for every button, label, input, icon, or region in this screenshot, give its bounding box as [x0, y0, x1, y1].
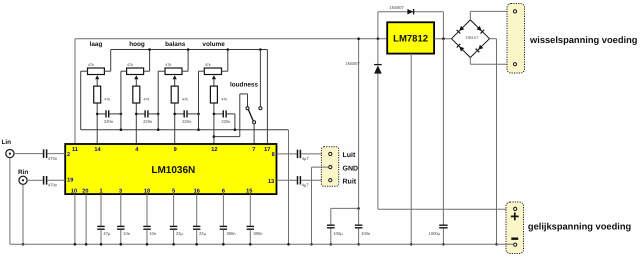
junction C3 to next channel drop: [197, 113, 200, 116]
wire pin 20 to ground: [85, 194, 87, 244]
wire cap to IC Rin: [47, 179, 65, 181]
junction cap ground: [120, 243, 123, 246]
svg-text:47k: 47k: [165, 63, 171, 67]
junction Vref hoog: [148, 48, 151, 51]
svg-text:wisselspanning voeding: wisselspanning voeding: [529, 35, 638, 45]
potentiometer P2 hoog 47k: [127, 63, 144, 79]
pin 16 label: [194, 188, 200, 194]
svg-text:47k: 47k: [205, 63, 211, 67]
capacitor 390n pin decoupling: [220, 194, 237, 244]
svg-text:22µ: 22µ: [199, 231, 207, 236]
junction cap ground: [249, 243, 252, 246]
junction Rin ground: [22, 243, 25, 246]
regulator U2 LM7812: [387, 22, 434, 53]
svg-text:12: 12: [211, 147, 217, 153]
wire P4 wiper down to IC: [213, 79, 215, 144]
svg-text:47k: 47k: [221, 97, 227, 101]
svg-text:16: 16: [194, 188, 200, 194]
wire bridge AC bottom: [470, 58, 513, 64]
pin 14 label: [94, 147, 101, 153]
svg-text:14: 14: [94, 147, 101, 153]
wire LM7812 input: [434, 38, 451, 40]
wire switch to pin 7: [253, 124, 255, 144]
svg-text:1N4007: 1N4007: [389, 5, 404, 10]
capacitor 4u7 output: [298, 150, 310, 162]
svg-text:1: 1: [99, 188, 102, 194]
junction LM7812 ground: [410, 243, 413, 246]
junction pin10 ground: [74, 243, 77, 246]
junction R1 bottom node: [96, 113, 99, 116]
svg-text:10: 10: [71, 188, 77, 194]
wire P3 wiper down to IC: [174, 79, 176, 144]
capacitor C1 220n: [97, 110, 121, 124]
svg-text:1N4007: 1N4007: [345, 61, 360, 66]
capacitor 1000u: [429, 225, 448, 236]
wire main ground bus: [10, 243, 514, 245]
pin 13 label: [268, 179, 274, 185]
wire P2 left end to ground bus: [121, 71, 127, 130]
junction loudness tap on pin 12 line: [213, 135, 216, 138]
pin 4 label: [135, 147, 139, 153]
capacitor 10n pin decoupling: [117, 194, 131, 244]
junction C2 to next channel drop: [157, 113, 160, 116]
svg-text:47k: 47k: [144, 97, 150, 101]
wire 100n to ground: [358, 228, 360, 244]
pin 3 label: [119, 188, 122, 194]
pin 10 label: [71, 188, 77, 194]
junction 100n ground: [357, 243, 360, 246]
svg-text:390n: 390n: [253, 231, 263, 236]
resistor R3 47k: [171, 86, 188, 103]
svg-text:GND: GND: [343, 165, 359, 172]
pin 17 label: [264, 147, 270, 153]
capacitor C3 220n: [175, 110, 199, 124]
wire bridge AC top: [470, 11, 513, 19]
svg-text:220n: 220n: [221, 119, 231, 124]
junction 100u ground: [330, 243, 333, 246]
junction ground bus: [120, 128, 123, 131]
diode D2 1N4007 dc input: [345, 39, 381, 210]
junction cap ground: [100, 243, 103, 246]
wire 100u to ground: [330, 228, 332, 244]
capacitor 22µ pin decoupling: [170, 194, 184, 244]
junction cap ground: [222, 243, 225, 246]
svg-text:Lin: Lin: [2, 139, 12, 146]
svg-text:DB107: DB107: [466, 35, 479, 40]
junction input 1000u: [442, 37, 445, 40]
capacitor 470n Lin: [44, 149, 58, 161]
svg-text:220n: 220n: [182, 119, 192, 124]
connector Rin jack: [19, 176, 27, 184]
wire C4 right side down to ground bus: [234, 114, 236, 130]
pin 7 label: [252, 147, 255, 153]
wire GND pin to ground bus: [312, 167, 329, 244]
svg-text:17: 17: [264, 147, 270, 153]
junction ground bus: [197, 128, 200, 131]
capacitor 10n pin decoupling: [143, 194, 157, 244]
svg-text:100µ: 100µ: [333, 231, 343, 236]
pin 15 label: [246, 188, 252, 194]
junction Vref balans: [187, 48, 190, 51]
junction ground bus: [234, 128, 237, 131]
label GND: [343, 165, 359, 172]
svg-text:8: 8: [272, 152, 275, 158]
wire P2 wiper down to IC: [135, 79, 137, 144]
wire P2 right end to Vref bus: [144, 50, 150, 72]
pin 1 label: [99, 188, 102, 194]
switch S1 loudness: [246, 107, 262, 124]
junction R2 bottom node: [135, 113, 138, 116]
capacitor 47µ pin decoupling: [97, 194, 111, 244]
diode D1 1N4007 bypass: [389, 5, 413, 15]
svg-text:18: 18: [144, 188, 150, 194]
wire pin 11 supply drop: [74, 39, 76, 144]
junction C1 to next channel drop: [120, 113, 123, 116]
wire pot ground bus: [81, 129, 289, 131]
svg-text:gelijkspanning voeding: gelijkspanning voeding: [528, 222, 632, 232]
label volume: [202, 41, 225, 48]
pin 8 label: [272, 152, 275, 158]
connector J3 AC input: [507, 4, 525, 74]
svg-text:470n: 470n: [48, 156, 58, 161]
pin 6 label: [222, 188, 225, 194]
resistor R2 47k: [133, 86, 150, 103]
wire Vref bus pin 17: [111, 49, 268, 51]
wire Rin to coupling cap: [27, 179, 43, 181]
wire P1 left end to ground bus: [81, 71, 88, 130]
pin 2 label: [67, 152, 70, 158]
label Ruit: [343, 177, 357, 185]
minus symbol: [511, 238, 518, 240]
wire ground bus down to main ground: [288, 130, 290, 245]
svg-text:4µ7: 4µ7: [302, 156, 310, 161]
wire switch to Vref bus: [259, 50, 261, 107]
wire output to cap: [277, 153, 297, 155]
junction GND connector ground: [310, 243, 313, 246]
junction cap ground: [172, 243, 175, 246]
label Lin: [2, 139, 12, 146]
wire Vref bus down to pin 17: [266, 50, 268, 145]
junction Vref volume: [227, 48, 230, 51]
potentiometer P4 volume 47k: [204, 63, 221, 79]
svg-text:15: 15: [246, 188, 252, 194]
svg-text:10n: 10n: [149, 231, 157, 236]
svg-text:loudness: loudness: [230, 82, 258, 89]
wire DC input + line: [378, 208, 514, 210]
junction rail 100n: [357, 37, 360, 40]
junction ground bus: [157, 128, 160, 131]
svg-text:1000µ: 1000µ: [429, 231, 441, 236]
svg-text:220n: 220n: [104, 119, 114, 124]
svg-text:47k: 47k: [88, 63, 94, 67]
wire Lin shield to ground: [9, 158, 11, 245]
capacitor 4u7 output: [298, 176, 310, 188]
wire pin 10 to ground: [74, 194, 76, 244]
capacitor 100n: [355, 225, 371, 236]
label balans: [165, 41, 186, 48]
label Luit: [343, 151, 356, 159]
svg-text:balans: balans: [165, 41, 186, 48]
svg-text:19: 19: [67, 178, 73, 184]
capacitor 390n pin decoupling: [247, 194, 264, 244]
junction R3 bottom node: [173, 113, 176, 116]
svg-text:390n: 390n: [226, 231, 236, 236]
wire L1 100u riser: [331, 208, 359, 224]
wire cap to connector: [301, 153, 329, 155]
pin 9 label: [174, 147, 177, 153]
svg-text:47k: 47k: [182, 97, 188, 101]
label hoog: [129, 41, 145, 48]
svg-text:9: 9: [174, 147, 177, 153]
potentiometer P3 balans 47k: [165, 63, 182, 79]
wire P3 left end to ground bus: [158, 71, 165, 130]
junction cap ground: [146, 243, 149, 246]
svg-text:47k: 47k: [127, 63, 133, 67]
capacitor C4 220n: [214, 110, 235, 124]
svg-text:47µ: 47µ: [103, 231, 111, 236]
resistor R1 47k: [94, 86, 111, 103]
wire P4 left end to ground bus: [199, 71, 205, 130]
pin 18 label: [144, 188, 150, 194]
junction Vref loudness: [259, 48, 262, 51]
label loudness: [230, 82, 258, 89]
label gelijkspanning voeding: [528, 222, 632, 232]
wire bypass diode line: [378, 12, 444, 39]
wire LM7812 ground pin: [410, 54, 412, 245]
IC U1 LM1036N: [65, 144, 276, 194]
wire output to cap: [277, 179, 297, 181]
connector J4 DC input: [506, 202, 524, 254]
capacitor 470n Rin: [44, 176, 58, 188]
svg-text:Luit: Luit: [343, 151, 356, 159]
pin 20 label: [82, 188, 88, 194]
label laag: [90, 41, 103, 48]
svg-text:10n: 10n: [123, 231, 131, 236]
junction rail bypass: [377, 37, 380, 40]
bridge rectifier BR1 DB107 outline: [452, 20, 490, 58]
svg-text:LM7812: LM7812: [393, 34, 428, 45]
junction R4 bottom node: [213, 113, 216, 116]
pin 11 label: [72, 147, 78, 153]
svg-text:13: 13: [268, 179, 274, 185]
diode bridge bottom-right: [476, 45, 484, 53]
capacitor 100u: [327, 225, 343, 236]
junction rail drop L1: [357, 207, 360, 210]
junction bridge minus ground: [495, 243, 498, 246]
svg-text:volume: volume: [202, 41, 225, 48]
svg-text:2: 2: [67, 152, 70, 158]
wire P3 right end to Vref bus: [182, 50, 188, 72]
wire 1000u to ground: [442, 228, 444, 244]
svg-text:Rin: Rin: [18, 169, 28, 176]
junction pin20 ground: [85, 243, 88, 246]
svg-text:LM1036N: LM1036N: [151, 165, 195, 176]
svg-text:laag: laag: [90, 41, 103, 48]
capacitor 22µ pin decoupling: [193, 194, 207, 244]
junction ground bus 288: [287, 243, 290, 246]
svg-text:hoog: hoog: [129, 41, 145, 48]
pin 12 label: [211, 147, 217, 153]
wire bridge minus to ground: [490, 39, 497, 245]
svg-text:11: 11: [72, 147, 78, 153]
wire rail to 100n: [358, 39, 360, 225]
svg-text:47k: 47k: [104, 97, 110, 101]
wire P4 right end to Vref bus: [222, 50, 228, 72]
capacitor C2 220n: [136, 110, 158, 124]
svg-text:7: 7: [252, 147, 255, 153]
pin 5 label: [172, 188, 175, 194]
svg-text:3: 3: [119, 188, 122, 194]
diode bridge top-right: [477, 26, 485, 34]
wire loudness tap to switch: [214, 94, 248, 137]
wire Lin to coupling cap: [14, 153, 43, 155]
wire cap to IC Lin: [47, 153, 65, 155]
label Rin: [18, 169, 28, 176]
potentiometer P1 laag 47k: [88, 63, 105, 79]
connector Lin jack: [6, 150, 14, 158]
label wisselspanning voeding: [529, 35, 638, 45]
wire +12V rail from pin 11 to LM7812 output: [75, 38, 387, 40]
svg-text:5: 5: [172, 188, 175, 194]
svg-text:20: 20: [82, 188, 88, 194]
junction 1000u ground: [442, 243, 445, 246]
svg-text:470n: 470n: [48, 183, 58, 188]
wire 1000u drop: [442, 39, 444, 225]
wire Rin shield to ground: [22, 184, 24, 244]
connector J2 output header: [321, 147, 338, 187]
pin 19 label: [67, 178, 73, 184]
diode bridge top-left: [457, 26, 465, 34]
wire cap to connector: [301, 179, 329, 181]
svg-text:Ruit: Ruit: [343, 177, 357, 185]
wire P1 right end to Vref bus: [104, 50, 110, 72]
svg-text:100n: 100n: [361, 231, 371, 236]
svg-text:6: 6: [222, 188, 225, 194]
wire P1 wiper down to IC: [96, 79, 98, 144]
svg-text:220n: 220n: [143, 119, 153, 124]
plus symbol: [511, 213, 519, 221]
diode bridge bottom-left: [457, 44, 465, 52]
junction cap ground: [195, 243, 198, 246]
svg-text:4µ7: 4µ7: [302, 183, 310, 188]
resistor R4 47k: [210, 86, 227, 103]
svg-text:22µ: 22µ: [176, 231, 184, 236]
